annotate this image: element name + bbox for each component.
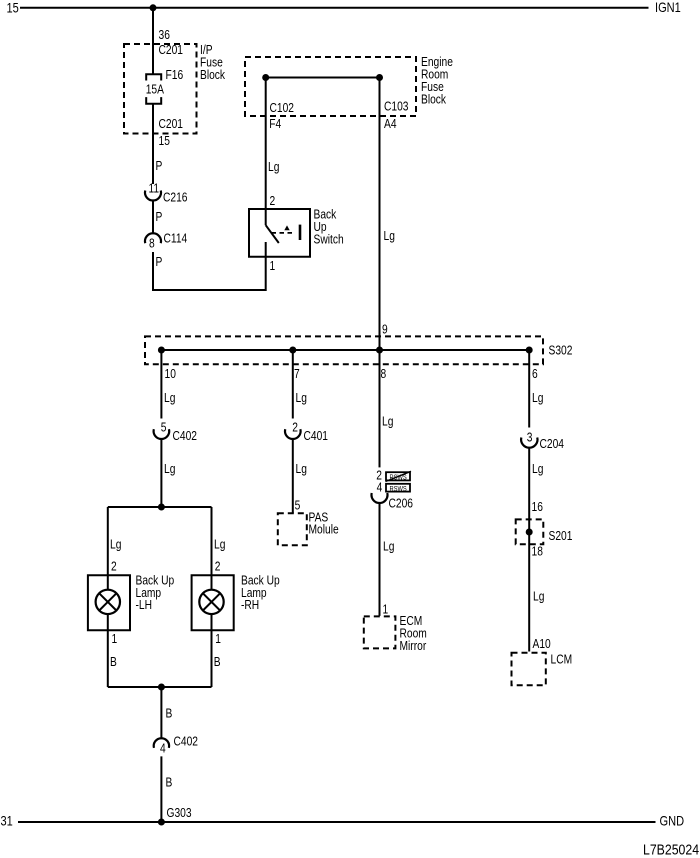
svg-text:RSWS: RSWS: [390, 474, 407, 482]
svg-text:Molule: Molule: [309, 524, 339, 537]
svg-text:Back Up: Back Up: [241, 575, 280, 588]
svg-text:4: 4: [377, 482, 383, 495]
svg-text:8: 8: [149, 238, 155, 251]
svg-text:F16: F16: [166, 69, 184, 82]
svg-text:Lg: Lg: [382, 416, 393, 429]
svg-text:7: 7: [294, 368, 300, 381]
svg-text:B: B: [166, 708, 173, 721]
svg-text:RSWS: RSWS: [390, 486, 407, 494]
svg-text:2: 2: [270, 195, 276, 208]
svg-text:Block: Block: [421, 94, 446, 107]
svg-text:2: 2: [215, 561, 221, 574]
svg-text:C201: C201: [159, 118, 183, 131]
svg-text:B: B: [166, 777, 173, 790]
svg-text:Fuse: Fuse: [200, 57, 223, 70]
svg-text:1: 1: [112, 633, 118, 646]
svg-text:Lamp: Lamp: [136, 587, 162, 600]
svg-text:3: 3: [527, 432, 533, 445]
svg-text:Lg: Lg: [533, 591, 544, 604]
svg-text:15: 15: [7, 1, 19, 16]
svg-text:36: 36: [159, 29, 170, 42]
svg-text:Room: Room: [400, 628, 427, 641]
svg-text:18: 18: [532, 546, 543, 559]
svg-text:C402: C402: [173, 430, 197, 443]
svg-text:Fuse: Fuse: [421, 81, 444, 94]
svg-text:4: 4: [160, 743, 166, 756]
svg-text:ECM: ECM: [400, 615, 423, 628]
svg-text:Lg: Lg: [532, 392, 543, 405]
svg-text:C206: C206: [389, 498, 413, 511]
svg-text:IGN1: IGN1: [655, 0, 681, 15]
svg-text:8: 8: [381, 368, 387, 381]
svg-text:G303: G303: [167, 807, 192, 820]
svg-text:16: 16: [532, 501, 543, 514]
svg-text:C201: C201: [159, 44, 183, 57]
svg-text:P: P: [156, 160, 163, 173]
svg-text:LCM: LCM: [551, 654, 573, 667]
svg-text:Back Up: Back Up: [136, 575, 175, 588]
svg-text:Lg: Lg: [110, 539, 121, 552]
svg-text:A4: A4: [384, 118, 397, 131]
svg-text:Block: Block: [200, 69, 225, 82]
svg-text:C204: C204: [540, 438, 565, 451]
svg-text:L7B25024: L7B25024: [643, 841, 699, 857]
svg-text:P: P: [156, 256, 163, 269]
svg-text:10: 10: [165, 368, 176, 381]
svg-text:Lg: Lg: [384, 230, 395, 243]
svg-text:1: 1: [270, 260, 276, 273]
svg-text:Lg: Lg: [164, 463, 175, 476]
svg-text:C102: C102: [270, 102, 294, 115]
svg-text:Lg: Lg: [383, 541, 394, 554]
svg-text:Up: Up: [314, 221, 327, 234]
svg-text:C401: C401: [304, 430, 328, 443]
svg-text:Lg: Lg: [532, 463, 543, 476]
svg-text:I/P: I/P: [200, 44, 213, 57]
svg-text:31: 31: [1, 814, 13, 829]
svg-text:C114: C114: [164, 233, 188, 246]
svg-text:1: 1: [215, 633, 221, 646]
svg-text:C103: C103: [384, 101, 408, 114]
svg-text:A10: A10: [533, 638, 551, 651]
svg-text:S302: S302: [549, 345, 573, 358]
svg-text:2: 2: [292, 422, 298, 435]
svg-text:-RH: -RH: [241, 599, 259, 612]
svg-text:Lg: Lg: [296, 392, 307, 405]
svg-text:PAS: PAS: [309, 512, 329, 525]
svg-text:Lamp: Lamp: [241, 587, 267, 600]
svg-text:C216: C216: [163, 192, 187, 205]
svg-text:-LH: -LH: [136, 599, 153, 612]
svg-text:Back: Back: [314, 209, 337, 222]
svg-text:2: 2: [111, 561, 117, 574]
svg-text:9: 9: [382, 324, 388, 337]
svg-text:Mirror: Mirror: [400, 640, 427, 653]
svg-text:5: 5: [295, 499, 301, 512]
svg-text:5: 5: [161, 422, 167, 435]
svg-text:B: B: [214, 656, 221, 669]
svg-text:C402: C402: [174, 736, 198, 749]
svg-text:GND: GND: [660, 814, 685, 829]
svg-text:Lg: Lg: [164, 392, 175, 405]
svg-text:1: 1: [383, 604, 389, 617]
svg-text:Room: Room: [421, 69, 448, 82]
svg-text:Lg: Lg: [296, 463, 307, 476]
svg-text:B: B: [110, 656, 117, 669]
svg-text:F4: F4: [269, 118, 282, 131]
svg-text:Switch: Switch: [314, 234, 344, 247]
svg-text:15: 15: [159, 135, 170, 148]
svg-text:11: 11: [149, 183, 160, 196]
svg-text:Lg: Lg: [268, 161, 279, 174]
svg-text:Engine: Engine: [421, 56, 453, 69]
svg-text:6: 6: [532, 368, 538, 381]
svg-text:15A: 15A: [146, 84, 165, 97]
svg-text:Lg: Lg: [214, 539, 225, 552]
svg-text:P: P: [156, 211, 163, 224]
svg-text:S201: S201: [549, 530, 573, 543]
